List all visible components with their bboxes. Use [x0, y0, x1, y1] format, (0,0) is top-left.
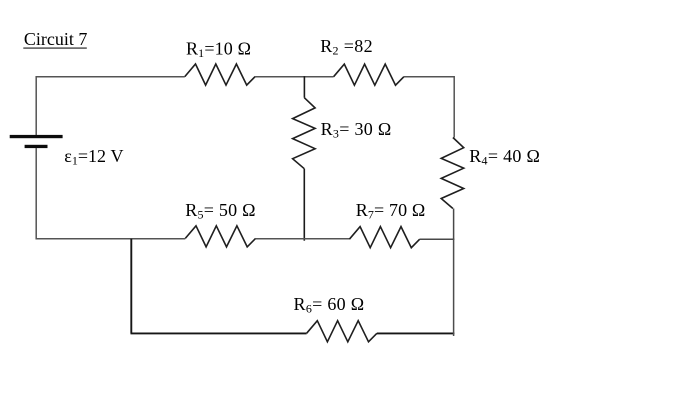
wire: bottom horizontal right (R6 to right rail) [377, 332, 455, 334]
svg-text:R3= 30 Ω: R3= 30 Ω [321, 119, 392, 141]
battery ε1 positive plate [10, 135, 63, 138]
wire: right rail lower (middle wire down to bottom wire) [453, 239, 455, 336]
svg-text:R1=10 Ω: R1=10 Ω [186, 38, 251, 60]
wire: bottom loop left vertical [130, 239, 132, 334]
wire: R7 right lead to right rail [420, 238, 455, 240]
svg-text:R7= 70 Ω: R7= 70 Ω [356, 200, 426, 222]
wire: middle horizontal (R5 to R7, node at R3 bottom) [256, 238, 350, 240]
wire: left rail upper (top wire down to battery) [35, 76, 37, 135]
wire: left rail lower (battery to middle wire) [35, 148, 37, 240]
title: Circuit 7 [23, 29, 87, 49]
resistor R6 (60 Ω) zigzag [307, 321, 377, 342]
svg-text:R4= 40 Ω: R4= 40 Ω [469, 146, 540, 168]
resistor R7 (70 Ω) zigzag [349, 227, 419, 248]
wire: right rail upper (top wire down to R4) [453, 76, 455, 138]
svg-text:Circuit 7: Circuit 7 [24, 29, 88, 49]
wire: top-left horizontal (battery top to R1) [36, 76, 185, 78]
resistor R2 (82) zigzag [334, 64, 404, 85]
resistor R1 (10 Ω) zigzag [185, 64, 255, 85]
wire: R3 bottom lead down to middle wire [303, 169, 305, 241]
wire: bottom horizontal left (to R6) [131, 332, 307, 334]
svg-text:R5= 50 Ω: R5= 50 Ω [185, 200, 256, 222]
wire: top-middle horizontal (R1 to R2, node at R3 top) [255, 76, 334, 78]
wire: middle-left horizontal (left rail to R5) [36, 238, 185, 240]
resistor R5 (50 Ω) zigzag [185, 226, 255, 247]
wire: right rail between R4 and middle wire [453, 209, 455, 240]
svg-text:R2 =82: R2 =82 [320, 36, 373, 58]
svg-text:ε1=12 V: ε1=12 V [64, 146, 123, 168]
svg-text:R6= 60 Ω: R6= 60 Ω [294, 294, 365, 316]
resistor R3 (30 Ω) zigzag [293, 98, 316, 169]
battery ε1 negative plate [25, 145, 48, 148]
resistor R4 (40 Ω) zigzag [441, 138, 464, 209]
wire: R3 top lead [303, 76, 305, 98]
wire: top-right horizontal (R2 to right rail) [404, 76, 454, 78]
